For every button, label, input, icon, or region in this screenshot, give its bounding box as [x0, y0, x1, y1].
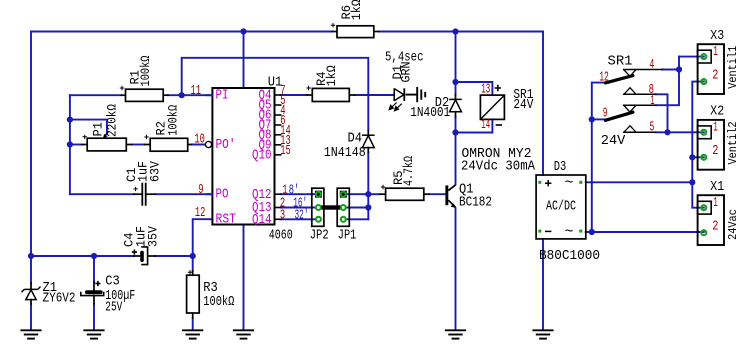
svg-text:2: 2: [712, 68, 718, 83]
svg-text:P1: P1: [91, 122, 105, 137]
wire C4 right to R3 node: [155, 255, 192, 257]
svg-text:25V: 25V: [105, 301, 123, 316]
diode D4 1N4148: [367, 131, 369, 136]
resistor R2 100k: [145, 144, 150, 146]
svg-text:63V: 63V: [149, 161, 163, 182]
svg-text:12: 12: [599, 70, 609, 85]
junction D2 cathode / relay pin 13: [452, 79, 458, 85]
junction D4 / JP1 / R5: [365, 191, 371, 197]
wire JP1 pin 2 to node: [346, 207, 369, 209]
svg-text:Ventil2: Ventil2: [726, 121, 740, 164]
wire top rail to D2 cathode: [455, 32, 457, 95]
svg-text:3: 3: [280, 207, 285, 223]
svg-text:11: 11: [191, 83, 202, 99]
svg-text:9: 9: [603, 106, 608, 121]
svg-text:1kΩ: 1kΩ: [325, 65, 339, 86]
ground sideways after LED D1: [406, 87, 426, 102]
wire bottom rail to C4 left: [31, 255, 134, 257]
wire R5 right to Q1 base: [429, 193, 445, 195]
LED D1 emission arrows: [389, 103, 402, 111]
U1 left pin stubs: [206, 94, 212, 96]
relay contact throw 1: [624, 104, 656, 106]
wire JP1 pin 3 to node: [346, 218, 369, 220]
wire U1 GND to ground: [243, 225, 245, 329]
svg-text:1N4148: 1N4148: [324, 146, 366, 161]
svg-text:Q10: Q10: [252, 149, 272, 164]
wire R3 bottom to ground: [192, 318, 194, 328]
junction AC / contact common 9: [589, 116, 595, 122]
rectifier D3 AC/DC B80C1000: [536, 175, 586, 239]
svg-text:2: 2: [712, 220, 718, 235]
svg-text:AC/DC: AC/DC: [546, 200, 576, 215]
P1 wiper arrow: [105, 131, 109, 136]
junction contact 8 / contact 5: [664, 129, 670, 135]
junction JP1 pin 2 column: [365, 204, 371, 210]
wire R1 right to PI pin 11: [168, 94, 212, 96]
svg-text:1kΩ: 1kΩ: [350, 0, 364, 20]
wire AC to relay contact common 9: [592, 118, 606, 120]
resistor R6 1k: [332, 31, 337, 33]
svg-text:ZY6V2: ZY6V2: [43, 292, 76, 307]
wire P1 right to R2 left: [132, 144, 145, 146]
svg-text:12: 12: [195, 205, 206, 221]
svg-text:100kΩ: 100kΩ: [166, 104, 180, 135]
wire node to relay coil pin 13: [456, 82, 493, 95]
svg-text:X1: X1: [710, 180, 724, 195]
jumper shunt bar on row 2: [322, 205, 341, 209]
svg-text:24Vdc 30mA: 24Vdc 30mA: [461, 160, 536, 175]
svg-text:4.7kΩ: 4.7kΩ: [402, 156, 416, 186]
wire top rail right of R6: [379, 31, 543, 33]
wire PI node over U1 to D4 cathode: [182, 58, 369, 131]
svg-text:RST: RST: [216, 213, 237, 228]
wire contact 5 to X2 pin 1: [656, 131, 704, 133]
ground left rail: [20, 330, 41, 338]
U1 right pin stubs: [275, 94, 281, 96]
wire node to X3 pin 1: [679, 56, 704, 58]
wire contact 8 down to contact 5 net: [656, 94, 668, 132]
svg-text:X3: X3: [710, 29, 724, 44]
wire C3 to ground: [93, 304, 95, 329]
wire Q13 to JP2 pin 2: [281, 207, 316, 209]
U1 PO' inversion bubble pin 10: [205, 141, 211, 147]
wire column to X2 pin 2: [692, 156, 704, 158]
svg-text:Ventil1: Ventil1: [726, 46, 740, 89]
wire D3 AC out to connector column: [586, 181, 693, 183]
svg-text:32': 32': [295, 207, 309, 223]
junction D2 anode / relay pin 14: [452, 129, 458, 135]
wire Q1 emitter to ground: [455, 208, 457, 328]
wire node vertical joining contact 1: [656, 57, 679, 106]
wire Q14 to JP2 pin 3: [281, 218, 316, 220]
resistor R4 1k: [307, 94, 312, 96]
resistor R1 100k: [121, 94, 125, 96]
capacitor C4 1uF 35V polarized: [134, 255, 140, 257]
capacitor C3 100uF 25V polarized: [93, 282, 95, 290]
connector X2 Ventil2: [698, 120, 724, 170]
svg-text:9: 9: [198, 182, 203, 198]
relay contact SR1 lower switch common 9: [605, 112, 633, 120]
svg-text:JP1: JP1: [338, 228, 357, 243]
svg-text:5,4sec: 5,4sec: [385, 51, 424, 66]
svg-text:D3: D3: [554, 160, 567, 175]
junction left rail / bottom rail: [28, 253, 34, 259]
wire X3 pin 2 column to X1 pin 1: [692, 82, 704, 208]
wire relay coil pin 14 to node: [456, 119, 493, 132]
wire timing node to C1 left: [70, 193, 134, 195]
wire contact 4 to X3 node: [662, 69, 679, 71]
wire top rail left of R6: [31, 31, 332, 33]
ground D3: [532, 330, 553, 338]
svg-text:BC182: BC182: [459, 196, 492, 211]
wire Q4 pin 7 to R4: [281, 94, 307, 96]
svg-text:4: 4: [649, 58, 654, 73]
svg-text:X2: X2: [710, 105, 724, 120]
connector X1 24Vac: [698, 195, 724, 245]
wire to P1 wiper: [70, 120, 107, 133]
wire D4 anode down JP1 column: [367, 152, 369, 219]
svg-text:5: 5: [649, 121, 654, 136]
junction D3 AC / X1 pin 2 wire: [589, 229, 595, 235]
svg-text:D4: D4: [348, 131, 363, 146]
svg-text:C3: C3: [105, 275, 120, 290]
wire Q12 to JP2 pin 1: [281, 193, 316, 195]
wire D2 anode to Q1 collector: [455, 117, 457, 185]
junction top rail / relay branch: [452, 28, 458, 34]
wire left rail down to Z1: [30, 32, 32, 284]
ground U1: [233, 330, 254, 338]
wire D3 AC out to X1 pin 2: [586, 231, 704, 233]
svg-text:100kΩ: 100kΩ: [203, 295, 234, 310]
zener diode Z1 ZY6V2: [30, 283, 32, 289]
diode D2 1N4001: [455, 95, 457, 100]
svg-text:B80C1000: B80C1000: [539, 249, 600, 264]
svg-text:Q14: Q14: [252, 213, 272, 228]
ground Q1 emitter: [445, 330, 466, 338]
capacitor C1 1uF 63V: [134, 193, 142, 195]
op IC U1 4060 body: [212, 88, 274, 225]
svg-text:1: 1: [713, 45, 718, 60]
svg-text:PI: PI: [216, 89, 229, 104]
wire Z1 to ground: [30, 304, 32, 329]
svg-text:4060: 4060: [269, 228, 293, 243]
wire timing node to R1 left: [70, 94, 121, 96]
resistor R5 4.7k: [380, 193, 385, 195]
relay contact throw 5: [624, 131, 656, 133]
wire R2 right to PO' bubble: [191, 144, 205, 146]
wire JP1 pin 1 to R5 node: [346, 193, 369, 195]
D3 pin marks: [538, 181, 582, 233]
junction timing node / P1 wiper: [67, 117, 73, 123]
svg-text:PO: PO: [216, 188, 229, 203]
svg-text:1: 1: [713, 196, 718, 211]
wire node to R5 left: [368, 193, 380, 195]
wire node to R3 top: [192, 256, 194, 271]
svg-text:24V: 24V: [513, 98, 534, 113]
junction contact 4 / X3 column: [676, 66, 682, 72]
svg-text:24Vac: 24Vac: [726, 209, 740, 240]
wire to P1 left: [70, 144, 82, 146]
relay coil SR1 24V: [480, 95, 504, 119]
svg-text:SR1: SR1: [608, 55, 633, 70]
svg-text:14: 14: [481, 118, 490, 133]
svg-text:220kΩ: 220kΩ: [106, 104, 120, 137]
relay contact throw 8: [624, 93, 656, 95]
jumper JP2: [312, 188, 324, 226]
svg-text:2: 2: [712, 144, 718, 159]
LED D1 GRN: [394, 88, 404, 101]
svg-text:1: 1: [713, 121, 718, 136]
relay contact throw 4: [624, 69, 663, 71]
svg-text:15: 15: [280, 143, 291, 159]
wire RST pin to bottom node: [193, 219, 213, 256]
jumper JP1: [337, 188, 349, 226]
svg-text:PO': PO': [216, 137, 236, 153]
transistor Q1 BC182: [445, 185, 448, 205]
svg-text:~: ~: [565, 223, 574, 240]
resistor R3 100k vertical: [192, 271, 194, 275]
ground C3: [83, 330, 104, 338]
wire C1 right to PO pin 9: [155, 193, 212, 195]
svg-text:1: 1: [650, 94, 654, 109]
ground R3: [182, 330, 203, 338]
junction bottom rail / C3: [91, 253, 97, 259]
junction AC column / X2 pin 2: [689, 154, 695, 160]
junction R1 right / PI: [179, 92, 185, 98]
wire top rail down to D3 plus: [542, 32, 544, 176]
potentiometer P1 220k: [82, 144, 87, 146]
svg-text:1N4001: 1N4001: [410, 106, 450, 121]
wire top rail to U1 VCC: [243, 32, 245, 89]
svg-text:35V: 35V: [146, 226, 160, 247]
svg-text:100kΩ: 100kΩ: [139, 55, 153, 86]
junction timing node / P1 left: [67, 141, 73, 147]
svg-text:13: 13: [481, 83, 490, 98]
svg-text:10: 10: [194, 132, 205, 148]
svg-text:~: ~: [565, 174, 574, 191]
junction top rail / U1 VCC: [240, 28, 246, 34]
svg-text:JP2: JP2: [310, 228, 329, 243]
connector X3 Ventil1: [698, 44, 724, 94]
wire AC to relay contact common 12: [592, 83, 606, 232]
wire R4 to LED D1 anode: [355, 94, 394, 96]
junction bottom rail / R3 / RST: [190, 253, 196, 259]
relay contact SR1 upper switch common 12: [605, 76, 633, 83]
junction AC column / D3 output: [689, 179, 695, 185]
wire D3 minus to ground: [542, 239, 544, 329]
wire down to C3: [93, 256, 95, 282]
wire timing node vertical: [69, 95, 71, 194]
svg-text:24V: 24V: [601, 134, 626, 149]
